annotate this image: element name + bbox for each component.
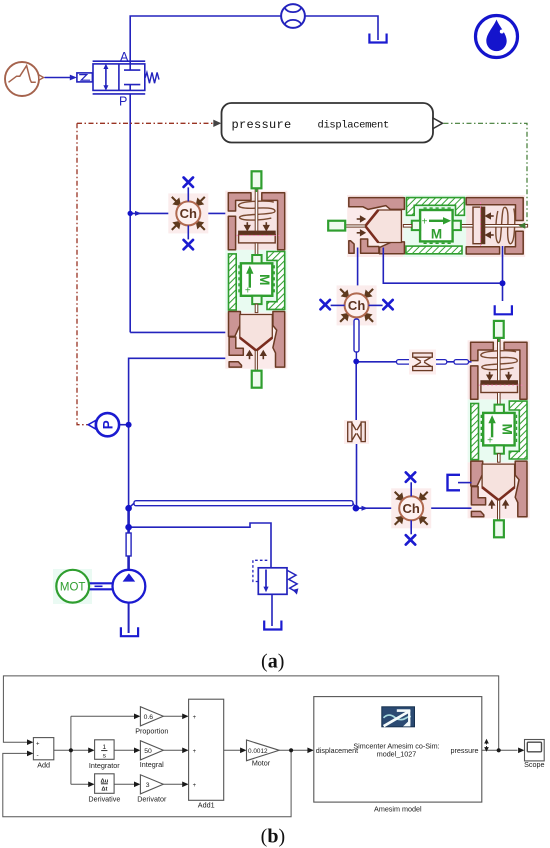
wire: Add1 to Motor (224, 749, 241, 751)
pilot valve PV2 (top right, horizontal) (345, 195, 528, 257)
svg-text:+: + (193, 749, 197, 755)
svg-text:Derivator: Derivator (137, 794, 167, 803)
svg-text:MOT: MOT (60, 582, 86, 594)
wire: pump riser with tee corners (129, 358, 238, 569)
wire: branch to Proportion (71, 715, 135, 717)
input arrowheads (27, 714, 525, 788)
svg-text:-: - (37, 752, 39, 759)
junction dots (69, 748, 501, 752)
tank T2 below relief valve (264, 621, 281, 630)
gain Derivator (140, 775, 163, 794)
svg-text:(a): (a) (261, 651, 284, 673)
svg-text:Amesim model: Amesim model (374, 805, 422, 814)
svg-text:1: 1 (102, 744, 106, 751)
displacement arrow into PV2 stem (519, 223, 526, 229)
svg-text:Integral: Integral (140, 760, 164, 769)
junction: main line to relief branch (125, 524, 132, 531)
wire: pressure feedback top loop (3, 676, 498, 750)
svg-text:A: A (120, 50, 129, 64)
svg-text:50: 50 (144, 748, 152, 755)
gain Integral (140, 741, 163, 760)
hydraulic fluid properties icon (droplet) (476, 16, 518, 58)
junction: PID branch node (69, 748, 73, 752)
wire: signal to solenoid with arrow (45, 77, 71, 79)
svg-text:displacement: displacement (316, 746, 358, 755)
svg-text:P: P (100, 420, 115, 429)
svg-text:s: s (103, 753, 107, 760)
directional valve V1 (proportional 2-position) (77, 61, 159, 94)
wire: orifice R2 to node C (356, 442, 358, 506)
svg-text:+: + (422, 216, 428, 227)
svg-text:Derivative: Derivative (88, 795, 120, 804)
junction: main line to Ch1 (128, 211, 133, 216)
junction: node C (353, 505, 360, 512)
wire: chamber Ch1 to valve PV1 (200, 212, 233, 214)
chamber Ch2 (middle) (321, 285, 393, 325)
wire: junction to chamber Ch1 (130, 212, 176, 214)
red-brown control dash-dot line to interface (77, 123, 213, 424)
wire: relief valve branch (129, 523, 271, 568)
svg-text:+: + (193, 783, 197, 789)
orifice R2 (vertical) (344, 420, 369, 444)
block Add (33, 738, 53, 760)
wire: branch to Integrator (71, 749, 89, 751)
svg-text:(b): (b) (261, 826, 285, 848)
block Integrator (95, 740, 115, 760)
wire: PV2 spring-side port to drain junction (502, 246, 504, 301)
svg-text:Δt: Δt (101, 787, 107, 793)
tank T3 right (495, 305, 512, 314)
wires: PV2 ports down (358, 246, 503, 301)
wire: valve A to flow meter (130, 16, 281, 64)
interface block (co-simulation ports) (222, 103, 434, 143)
pilot valve PV1 (left, vertical) (225, 188, 287, 371)
svg-text:0.6: 0.6 (144, 714, 154, 721)
wire: branch to Derivative (71, 783, 89, 785)
wire: valve A-port up and across to flow meter and tank (130, 16, 378, 64)
wire: branch vertical (70, 716, 72, 784)
long pipe from pump riser to mid junction (129, 503, 134, 508)
svg-text:P: P (119, 95, 127, 109)
flow meter FM (281, 4, 305, 28)
svg-text:Proportion: Proportion (135, 726, 168, 735)
block Scope (525, 740, 545, 761)
svg-text:Motor: Motor (252, 758, 271, 767)
svg-text:M: M (431, 227, 442, 242)
svg-text:Integrator: Integrator (89, 761, 120, 770)
wire: valve P down the main supply line (129, 94, 131, 332)
pressure sensor PS (88, 413, 129, 436)
wire: relief valve to tank (271, 594, 273, 626)
block Add1 (189, 699, 224, 800)
sample time marker (485, 740, 488, 751)
svg-text:3: 3 (146, 782, 150, 789)
wire: displacement feedback bottom loop (3, 750, 291, 817)
plugged port bracket at PV3 (448, 475, 461, 491)
pilot valve PV3 (bottom right, vertical) (468, 338, 530, 521)
junction nodes (125, 211, 505, 531)
gain Proportion (140, 707, 163, 726)
pump P1 (112, 570, 145, 633)
chamber Ch3 (bottom) (391, 472, 431, 544)
svg-text:Add1: Add1 (198, 800, 215, 809)
svg-text:model_1027: model_1027 (377, 750, 417, 759)
svg-text:+: + (36, 741, 40, 747)
wire: gains to Add1 (163, 716, 183, 784)
pipe segment on pump riser (126, 533, 131, 556)
junction: node B (353, 359, 359, 365)
wire: pressure to Scope (482, 749, 518, 751)
junction: PV2 drain node (500, 280, 506, 286)
relief valve RV (253, 560, 297, 594)
svg-text:displacement: displacement (318, 120, 389, 132)
wires: mid junction to orifices (356, 362, 471, 506)
wire: Motor to Amesim model (279, 749, 307, 751)
junction: pressure node (497, 748, 501, 752)
pipe below Ch2 (354, 319, 359, 352)
wire: node B to orifice R2 (355, 363, 357, 422)
tank T1 top right (369, 34, 386, 43)
wire: Integrator to Integral (114, 749, 135, 751)
svg-text:Add: Add (37, 761, 50, 770)
motor MOT (53, 569, 113, 604)
block Amesim model (314, 697, 482, 803)
svg-text:0.0012: 0.0012 (248, 748, 268, 755)
chamber Ch1 (168, 178, 208, 250)
junction: main line at sensor (126, 422, 132, 428)
wire: Derivative to Derivator (114, 783, 135, 785)
svg-text:+: + (193, 715, 197, 721)
block Derivative (95, 774, 115, 794)
junction: main line to long pipe (125, 505, 132, 512)
svg-text:Scope: Scope (524, 760, 544, 769)
tank T4 below pump (121, 627, 138, 636)
junction: displacement node (289, 748, 293, 752)
gain Motor (247, 740, 280, 761)
wire: mid junction to chamber Ch3 and valve PV3 (356, 507, 399, 509)
wire: PV2 port to drain junction (383, 248, 502, 284)
wire: Add output to branch node (54, 749, 71, 751)
wire: flow meter to tank T1 (305, 16, 378, 40)
orifice R1 (horizontal) (409, 350, 436, 375)
wire: node B to orifice R1 (358, 361, 398, 363)
signal source S1 (ramp) (5, 62, 44, 96)
wire: PV2 port to chamber Ch2 (357, 248, 359, 294)
svg-text:pressure: pressure (451, 746, 479, 755)
wire: orifice R1 to valve PV3 (447, 361, 472, 363)
svg-text:pressure: pressure (232, 118, 292, 132)
green displacement dash-dot line to valve PV2 stem (444, 123, 528, 225)
